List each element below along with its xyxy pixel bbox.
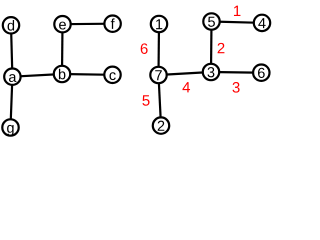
label d xyxy=(8,20,15,31)
node 6 xyxy=(253,65,269,81)
node e xyxy=(54,16,70,32)
wire right edge 1-7 xyxy=(157,24,160,75)
wire right edge 5-3 xyxy=(210,22,213,73)
label 4 xyxy=(258,18,265,28)
weight 5 xyxy=(142,95,149,105)
wire left edge e-b xyxy=(61,24,64,74)
node f xyxy=(104,16,120,32)
label f xyxy=(111,18,115,28)
wire right edge 5-4 xyxy=(212,22,263,23)
weight 6 xyxy=(141,43,148,54)
label g xyxy=(7,125,14,136)
wire right edge 3-6 xyxy=(211,71,261,74)
node c xyxy=(104,67,120,83)
label b xyxy=(59,69,66,80)
label a xyxy=(9,74,16,82)
wire right edge 7-3 xyxy=(159,72,212,75)
node g xyxy=(2,119,18,135)
node 2 xyxy=(153,117,169,133)
wire left edge b-c xyxy=(62,73,113,76)
label 6 xyxy=(258,68,265,78)
label 2 xyxy=(158,121,165,131)
wire left edge a-g xyxy=(11,77,13,128)
node b xyxy=(54,66,70,82)
weight 4 xyxy=(182,82,190,92)
wire left edge e-f xyxy=(63,23,113,26)
node a xyxy=(4,69,20,85)
label 5 xyxy=(208,17,215,27)
node 5 xyxy=(203,13,219,29)
node d xyxy=(3,17,19,33)
label 7 xyxy=(155,70,162,80)
wire left edge d-a xyxy=(11,25,12,76)
weight 3 xyxy=(233,82,240,93)
wire right edge 7-2 xyxy=(159,75,162,126)
weight 2 xyxy=(218,43,225,53)
label c xyxy=(109,72,115,80)
node 4 xyxy=(254,15,270,31)
wire left edge a-b xyxy=(12,74,62,77)
node 3 xyxy=(203,64,219,80)
label 3 xyxy=(208,67,215,77)
label 1 xyxy=(156,19,162,29)
node 7 xyxy=(150,67,166,83)
node 1 xyxy=(151,16,167,32)
label e xyxy=(59,22,66,30)
weight 1 xyxy=(234,6,240,16)
